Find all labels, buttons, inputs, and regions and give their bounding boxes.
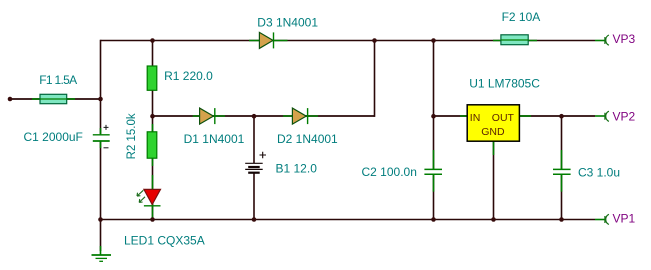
port VP2 [605,110,636,124]
node C2 bottom [431,217,436,222]
node C1 top [98,97,103,102]
wire riser x=374.5 [374,41,376,117]
node R1-R2 [150,114,155,119]
svg-text:LED1 CQX35A: LED1 CQX35A [124,233,205,247]
wire U1 input y=116 [434,115,468,117]
svg-text:R2 15.0k: R2 15.0k [126,113,138,159]
resistor R2 [147,132,157,158]
svg-text:F2 10A: F2 10A [502,10,541,24]
green pin stubs [32,41,605,256]
svg-text:D3 1N4001: D3 1N4001 [257,15,318,29]
svg-text:VP2: VP2 [613,110,636,124]
U1 pin labels [470,112,515,138]
svg-text:VP3: VP3 [613,32,636,46]
node input terminal [8,97,13,102]
wire top rail y=40.5 [101,40,596,42]
capacitor C2 [424,169,442,174]
svg-text:C2 100.0n: C2 100.0n [362,165,417,179]
node B1 bottom [252,217,257,222]
svg-text:OUT: OUT [492,112,515,124]
capacitor C3 [553,169,571,174]
node C3 bottom [559,217,564,222]
port VP3 [605,32,636,46]
fuse F2 [501,35,528,45]
diode D2 [292,108,307,124]
node C1 bottom [98,217,103,222]
wire U1 gnd pin x=493.5 [493,141,495,220]
node U1 gnd [491,217,496,222]
svg-text:GND: GND [481,126,505,138]
svg-text:C3 1.0u: C3 1.0u [578,165,620,179]
ground [92,255,112,261]
wire diode row y=116 [153,115,375,117]
svg-text:F1 1.5A: F1 1.5A [39,73,77,87]
resistor R1 [147,66,157,90]
battery B1 [245,152,266,173]
wire C1 column x=100.5 [100,40,102,251]
diode D3 [259,32,273,48]
node R1 top [150,38,155,43]
LED LED1 [137,189,161,205]
wire C3 column x=561.5 [561,116,563,220]
fuse F1 [40,94,67,103]
wire mid fuse row y=99 [10,98,101,100]
node B1 top [252,114,257,119]
node C2 input [431,114,436,119]
svg-text:D2 1N4001: D2 1N4001 [277,132,338,146]
wire bottom rail y=219.5 [101,219,596,221]
node C3 top [559,114,564,119]
svg-text:IN: IN [470,112,481,124]
capacitor C1 [93,135,110,141]
port VP1 [605,212,636,226]
svg-text:C1 2000uF: C1 2000uF [24,130,83,144]
svg-text:B1 12.0: B1 12.0 [276,161,318,175]
node LED bottom [150,217,155,222]
wire B1 column x=254 [253,116,255,220]
node riser top [372,38,377,43]
svg-text:D1 1N4001: D1 1N4001 [184,132,245,146]
svg-text:U1 LM7805C: U1 LM7805C [469,76,540,90]
wire R-LED column x=152.5 [152,40,154,220]
regulator U1 [467,105,519,141]
wire U1 output y=116 [520,115,596,117]
svg-text:R1 220.0: R1 220.0 [164,69,213,83]
diode D1 [200,108,215,124]
svg-text:VP1: VP1 [613,212,636,226]
node C2 top rail [431,38,436,43]
wire C2 column x=433.5 [433,40,435,220]
